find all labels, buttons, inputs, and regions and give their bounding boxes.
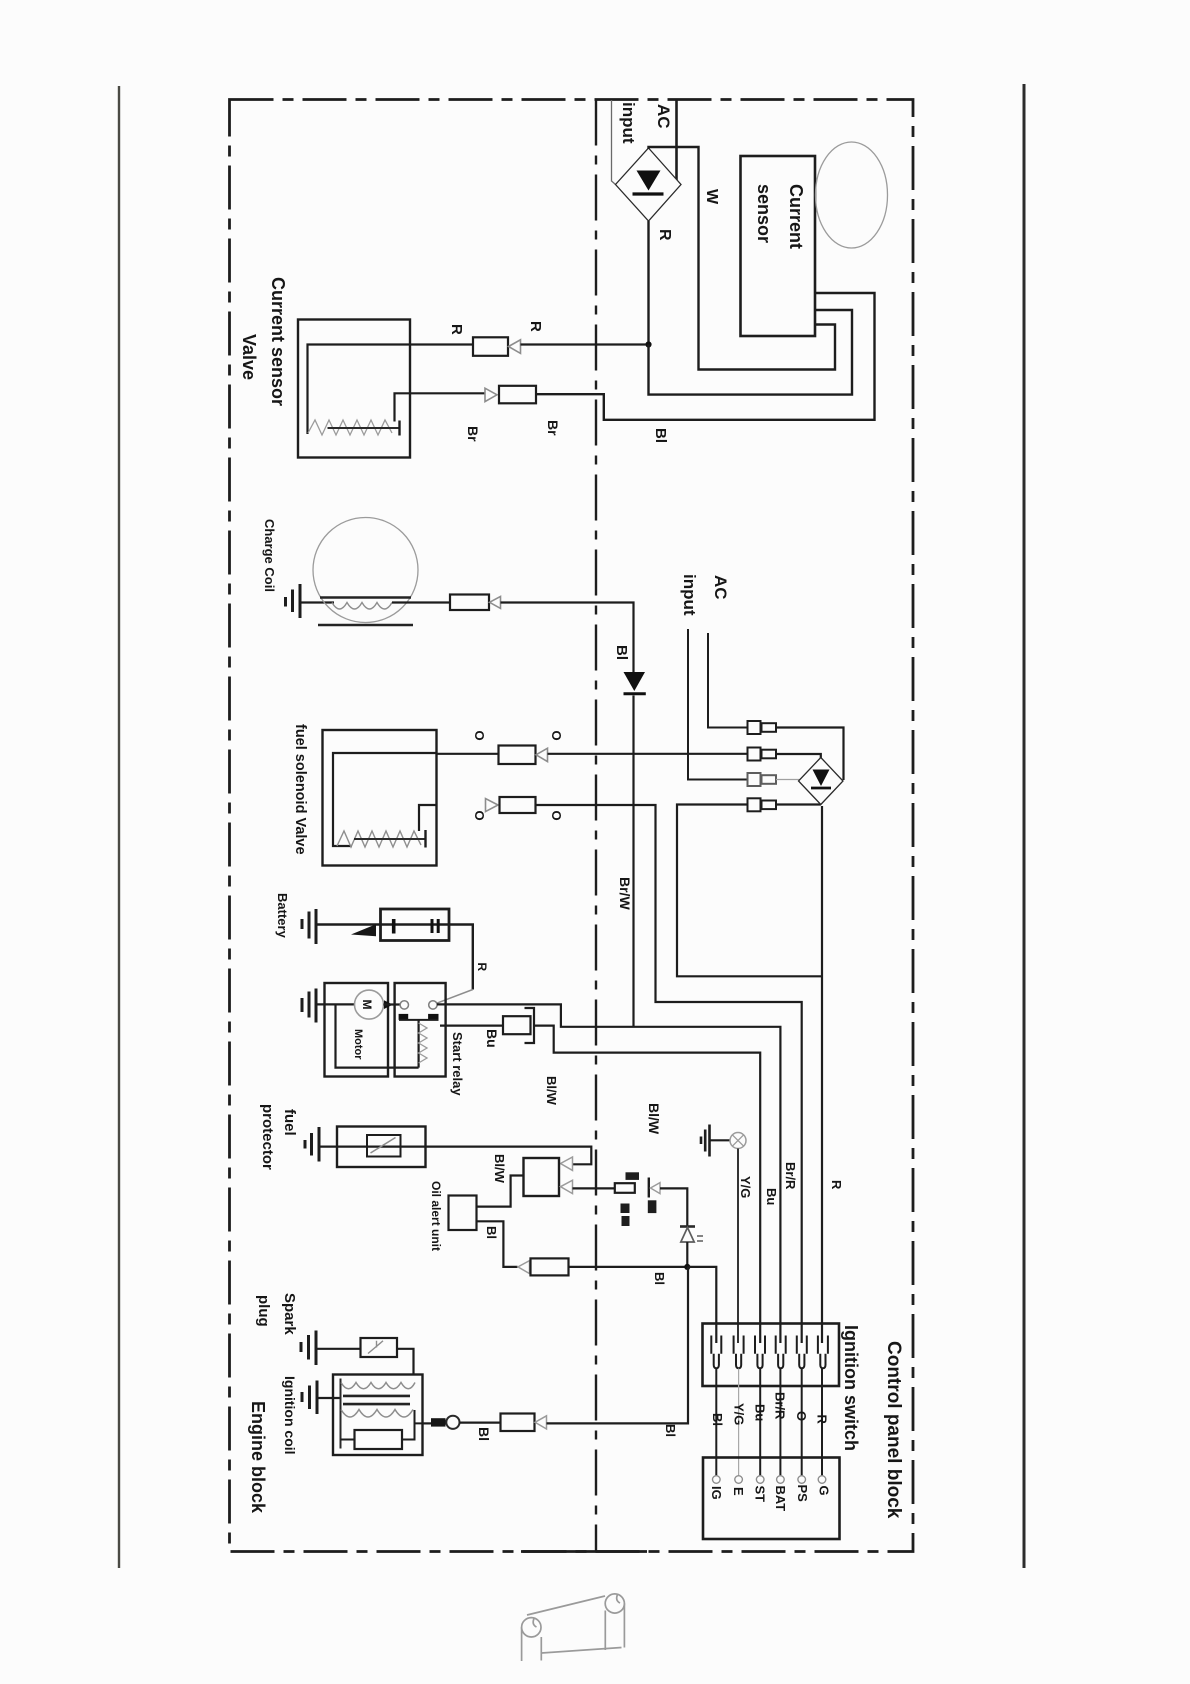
svg-text:Br/W: Br/W xyxy=(617,877,633,910)
wire Br to current sensor pin1 xyxy=(536,293,875,420)
ground G4 xyxy=(305,1127,319,1162)
wire alert to relay xyxy=(477,1176,524,1207)
ignition switch body xyxy=(703,1458,840,1540)
svg-text:R: R xyxy=(448,324,465,335)
wire ground to battery xyxy=(316,923,381,925)
svg-text:fuel: fuel xyxy=(281,1109,298,1136)
connector bar xyxy=(648,1178,650,1198)
page right rule xyxy=(1023,84,1026,1568)
protector switch blade xyxy=(371,1138,396,1154)
svg-text:BAT: BAT xyxy=(773,1486,788,1512)
wire spark plug to coil xyxy=(397,1349,414,1375)
battery cell bars xyxy=(392,919,396,934)
coil primary winding xyxy=(341,1410,413,1418)
svg-text:Ignition switch: Ignition switch xyxy=(841,1325,861,1451)
svg-text:Bu: Bu xyxy=(753,1404,768,1421)
fuel solenoid box xyxy=(323,730,437,866)
svg-text:O: O xyxy=(472,731,487,741)
wire Bl vertical xyxy=(632,696,634,1027)
wire diode to junction xyxy=(686,1242,688,1265)
motor M circle xyxy=(355,990,384,1019)
fuse F1 xyxy=(615,1183,635,1193)
connector col 1 xyxy=(748,721,777,811)
wire ground to spark plug xyxy=(316,1348,361,1350)
connector arrow into alert relay 2 xyxy=(561,1180,573,1193)
svg-text:R: R xyxy=(656,229,673,241)
svg-text:Bl: Bl xyxy=(476,1427,492,1441)
solenoid coil T-bar xyxy=(424,830,426,848)
solenoid inner frame xyxy=(333,753,437,846)
svg-text:IG: IG xyxy=(709,1486,724,1500)
connector CN-coil rect xyxy=(501,1414,535,1432)
svg-text:Bu: Bu xyxy=(484,1029,500,1048)
charge coil core top xyxy=(320,596,411,598)
svg-text:AC: AC xyxy=(711,575,730,600)
relay pad bar xyxy=(399,1019,439,1021)
svg-text:Engine block: Engine block xyxy=(248,1401,268,1514)
connector CN-Br arrow xyxy=(485,388,497,401)
svg-text:M: M xyxy=(360,1000,374,1010)
svg-text:Y/G: Y/G xyxy=(738,1176,753,1198)
coil secondary winding xyxy=(341,1383,415,1389)
svg-text:protector: protector xyxy=(259,1104,276,1170)
svg-text:Bu: Bu xyxy=(764,1188,779,1205)
connector CN-alert rect xyxy=(531,1258,569,1275)
svg-text:O: O xyxy=(549,811,564,821)
svg-text:sensor: sensor xyxy=(754,184,774,243)
scroll banner icon xyxy=(527,1596,605,1615)
charge coil ring xyxy=(313,518,418,623)
coil left lead xyxy=(340,1379,342,1449)
node junction R xyxy=(645,341,651,347)
connector col 4 xyxy=(748,798,761,811)
ground G7 xyxy=(302,1381,317,1415)
wire coil to connector xyxy=(392,601,450,603)
wire through battery xyxy=(381,925,473,990)
wire lamp to ignition pin2 xyxy=(737,1149,739,1344)
tiny tag b xyxy=(648,1200,657,1213)
svg-text:Bl: Bl xyxy=(652,428,669,443)
svg-text:Bl: Bl xyxy=(652,1272,667,1285)
ground G5 xyxy=(701,1125,710,1157)
block divider dash-dot line xyxy=(595,100,597,1552)
ground G2 xyxy=(302,909,316,944)
svg-text:Br/R: Br/R xyxy=(773,1392,788,1420)
wire motor to relay contact xyxy=(384,1003,401,1005)
solenoid coil zigzag xyxy=(337,831,421,847)
svg-text:Bl/W: Bl/W xyxy=(646,1103,662,1135)
wire coil out xyxy=(423,1422,432,1424)
wire R: plug bottom to junction xyxy=(647,221,649,345)
fuel protector box xyxy=(337,1127,426,1168)
connector CN-Br rect xyxy=(499,386,536,404)
AC plug P1 bar xyxy=(633,192,664,195)
svg-text:E: E xyxy=(731,1487,746,1496)
switch terminals xyxy=(713,1476,826,1484)
border bottom solid segment at divider xyxy=(521,1550,647,1553)
wire ground to coil xyxy=(317,1397,341,1399)
relay arm diagonal xyxy=(437,990,473,1004)
connector pins 1-6 xyxy=(711,1336,828,1369)
svg-text:G: G xyxy=(817,1486,832,1496)
wire conn4 to plug bottom xyxy=(776,803,821,805)
ignition connector block xyxy=(703,1324,840,1387)
wire to connector xyxy=(460,1421,501,1423)
connector CN-Bu bracket xyxy=(525,1008,535,1043)
wire W: plug top to current sensor pin3 xyxy=(649,147,836,370)
wire conn4 left loop xyxy=(677,805,822,977)
svg-text:Oil alert unit: Oil alert unit xyxy=(429,1181,443,1251)
svg-text:Bl: Bl xyxy=(710,1413,725,1426)
svg-text:input: input xyxy=(680,574,699,616)
oil alert unit box xyxy=(449,1196,477,1231)
svg-text:R: R xyxy=(475,963,489,972)
AC plug P2 diamond xyxy=(799,758,844,805)
wire AC feed thick xyxy=(675,100,678,180)
spark plug box xyxy=(361,1338,398,1357)
valve coil zigzag xyxy=(308,420,392,435)
wire protector to corner xyxy=(319,1147,591,1165)
svg-text:Charge Coil: Charge Coil xyxy=(262,519,277,592)
connector CN-O2 arrow xyxy=(486,799,499,812)
pin lead wires to switch xyxy=(715,1369,717,1476)
valve coil T-bar xyxy=(398,421,400,436)
connector CN-R rect xyxy=(473,337,508,356)
svg-text:R: R xyxy=(829,1180,844,1190)
coil inner links xyxy=(341,1410,423,1440)
connector arrow into alert relay 1 xyxy=(561,1157,573,1170)
wire conn3 to plug left (thin) xyxy=(776,779,800,781)
node junction Bl xyxy=(684,1264,690,1270)
wire valve coil elbow xyxy=(395,393,485,421)
svg-text:Current sensor: Current sensor xyxy=(268,277,288,406)
motor box xyxy=(325,983,389,1077)
svg-text:Spark: Spark xyxy=(281,1293,298,1335)
connector CN-O2 rect xyxy=(500,797,536,813)
wire Bl/W to ignition pin3 xyxy=(534,1026,760,1343)
svg-text:Bl/W: Bl/W xyxy=(492,1154,507,1184)
wire R to junction xyxy=(521,343,647,345)
svg-text:Br: Br xyxy=(545,420,561,436)
control/engine block dash-dot border xyxy=(230,100,914,1552)
wire ground to lamp xyxy=(710,1139,731,1141)
wire fuse to diode xyxy=(660,1188,687,1226)
motor out arrow xyxy=(384,1000,393,1009)
svg-text:O: O xyxy=(549,731,564,741)
wire O lower to ignition pin5 xyxy=(536,805,802,1343)
svg-text:Current: Current xyxy=(786,184,806,249)
svg-text:Bl: Bl xyxy=(663,1424,678,1437)
connector CN-coil small xyxy=(431,1418,446,1426)
diode tag marks xyxy=(697,1236,703,1241)
connector CN-alert arrow xyxy=(518,1261,530,1274)
ground G1 xyxy=(286,584,301,618)
wire relay coil out xyxy=(440,1024,503,1026)
connector CN-coil arrow xyxy=(535,1416,547,1429)
svg-text:Y/G: Y/G xyxy=(732,1403,747,1425)
ignition coil box xyxy=(333,1375,423,1456)
tiny tag a xyxy=(621,1204,630,1214)
connector arrow (fuse side) xyxy=(651,1183,661,1194)
svg-text:plug: plug xyxy=(255,1295,272,1327)
fuse tag xyxy=(626,1172,640,1180)
page left rule xyxy=(118,86,120,1568)
svg-text:O: O xyxy=(794,1411,809,1421)
svg-text:Br: Br xyxy=(465,426,481,442)
svg-text:Valve: Valve xyxy=(239,334,259,380)
connector col 2 xyxy=(748,748,761,761)
svg-text:Br/R: Br/R xyxy=(783,1162,798,1190)
svg-text:W: W xyxy=(703,189,720,205)
solenoid coil lead xyxy=(354,838,425,840)
current sensor coil ring xyxy=(816,142,888,248)
svg-text:Bl/W: Bl/W xyxy=(544,1076,559,1106)
wire Bl horizontal xyxy=(501,603,634,673)
svg-text:R: R xyxy=(527,321,544,332)
wire solenoid elbow xyxy=(419,805,437,831)
connector col 3 xyxy=(748,773,761,786)
svg-text:fuel solenoid Valve: fuel solenoid Valve xyxy=(292,724,308,855)
wire conn2 to plug top xyxy=(776,754,821,759)
svg-text:ST: ST xyxy=(753,1486,768,1503)
spark plug gap mark xyxy=(368,1341,383,1354)
AC plug P1 arrow xyxy=(637,171,661,191)
charge coil core bottom xyxy=(318,624,413,626)
wire conn1 to plug right xyxy=(776,728,844,781)
svg-text:Motor: Motor xyxy=(352,1029,364,1060)
connector CN-Bu rect xyxy=(503,1016,531,1034)
diode D1 xyxy=(624,672,646,691)
wire AC mid 1 xyxy=(708,633,748,728)
svg-text:PS: PS xyxy=(795,1485,810,1503)
charge coil winding xyxy=(332,603,392,610)
svg-text:O: O xyxy=(472,811,487,821)
wire coil Bl to junction riser xyxy=(547,1267,689,1424)
svg-text:Ignition coil: Ignition coil xyxy=(282,1376,298,1455)
svg-text:input: input xyxy=(619,102,638,144)
coil core lines xyxy=(343,1396,410,1404)
wire relay NO to ignition pin4 xyxy=(437,1004,780,1343)
protector switch rect xyxy=(367,1135,401,1157)
svg-text:Bl: Bl xyxy=(484,1226,499,1239)
ground G3 xyxy=(302,989,316,1023)
wire O upper out xyxy=(437,753,499,755)
svg-text:Control panel block: Control panel block xyxy=(883,1341,904,1519)
wire R: plug bottom to ignition pin6 xyxy=(821,806,823,1343)
start relay box xyxy=(395,983,446,1077)
diode D2 open xyxy=(680,1225,695,1228)
svg-text:AC: AC xyxy=(654,104,673,129)
wire O upper to AC connector 2 xyxy=(548,753,749,755)
wire ground to motor xyxy=(316,1003,355,1005)
AC plug P1 diamond xyxy=(616,148,682,221)
oil alert relay box xyxy=(524,1158,560,1196)
connector CN-O1 rect xyxy=(499,746,536,765)
svg-text:R: R xyxy=(815,1415,830,1425)
wire R out of valve xyxy=(410,343,473,345)
wire AC feed thin xyxy=(612,100,616,185)
connector CN-O1 arrow xyxy=(536,748,548,761)
svg-text:Battery: Battery xyxy=(275,893,290,939)
pilot lamp xyxy=(730,1133,746,1149)
battery arrowhead xyxy=(351,924,376,936)
current sensor valve box xyxy=(298,320,410,458)
connector CN-chg arrow xyxy=(490,596,501,608)
valve coil lead xyxy=(328,427,399,429)
wire AC mid 2 xyxy=(688,629,748,780)
current sensor U1 box xyxy=(741,156,816,336)
coil exciter box xyxy=(355,1430,403,1449)
valve inner frame xyxy=(308,345,411,435)
wire motor inner U xyxy=(336,1004,419,1067)
relay contact pads xyxy=(399,1014,409,1020)
battery BT1 box xyxy=(381,909,450,941)
relay coil K1 xyxy=(418,1020,420,1068)
AC plug P2 bar xyxy=(811,787,831,790)
relay contact circles xyxy=(400,1001,408,1009)
wire ground to coil xyxy=(300,601,334,603)
svg-text:Start relay: Start relay xyxy=(450,1032,465,1096)
wire junction to ignition pin1 xyxy=(687,1267,716,1343)
ground G6 xyxy=(301,1331,316,1366)
wire alert down xyxy=(477,1221,518,1267)
connector CN-chg rect xyxy=(450,595,489,611)
wire to fuse xyxy=(573,1187,615,1189)
svg-text:Bl: Bl xyxy=(613,645,630,660)
wire junction to current sensor pin2 xyxy=(649,310,853,395)
wire alert to junction xyxy=(569,1266,688,1268)
connector CN-R arrow xyxy=(509,340,521,354)
AC plug P2 arrow xyxy=(813,770,830,787)
